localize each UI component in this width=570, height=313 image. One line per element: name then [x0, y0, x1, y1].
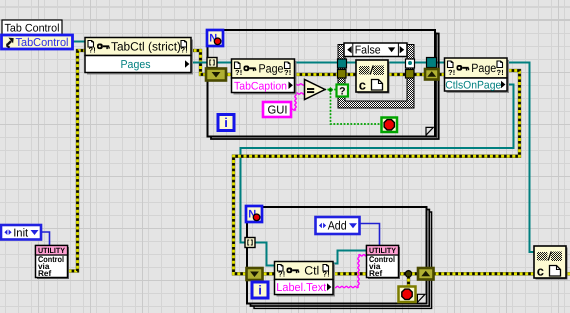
loop 1 left shift register [206, 69, 226, 81]
svg-text:Tab Control: Tab Control [5, 23, 60, 35]
property node TabCtl strict [85, 38, 193, 75]
wire error bottom loop out [433, 272, 535, 275]
loop 1 right shift register [425, 69, 439, 80]
wire error Ctl node to VI2 [332, 272, 368, 275]
wire error shift reg to Page node [225, 73, 232, 76]
svg-text:c: c [359, 78, 366, 93]
case selector terminal [337, 85, 349, 98]
svg-text:Pages: Pages [121, 59, 151, 71]
wire error shift to Ctl node [261, 272, 275, 275]
svg-text:Add: Add [328, 219, 347, 233]
case tunnel error out [406, 70, 415, 79]
string constant GUI [263, 102, 291, 117]
for loop 2 shadow frames [251, 210, 432, 309]
equal comparison node [305, 80, 326, 100]
svg-text:!: ! [501, 68, 504, 77]
wire string TabCaption to equal [294, 84, 305, 85]
wire ref out to c icon [506, 63, 535, 253]
wire ref Ctl node to VI2 [332, 251, 367, 264]
loop 2 iteration terminal i [252, 282, 268, 298]
wire Pages array to loop tunnel [190, 62, 208, 64]
wire error through case to icon [342, 73, 358, 76]
wire ctl ref tunnel to Ctl node [254, 243, 275, 266]
for loop 1 shadow frames [211, 33, 439, 139]
label Tab Control [2, 20, 62, 35]
subVI c-page icon bottom right [534, 246, 568, 280]
loop 2 count terminal N [246, 206, 262, 222]
svg-text:!: ! [327, 270, 330, 279]
conditional terminal loop 1 [382, 118, 398, 133]
wire error VI1 to TabCtl property node [66, 51, 85, 272]
case structure border [338, 45, 414, 109]
property node Page TabCaption [232, 59, 297, 95]
svg-text:!: ! [453, 68, 456, 77]
wire string Label.Text to VI2 [332, 255, 367, 288]
wire error VI2 to shift reg [398, 271, 419, 287]
wire ref case to loop tunnel [414, 62, 430, 64]
for loop 1 fold corner [426, 127, 435, 135]
wire enum Add to VI2 [359, 224, 380, 247]
subVI c-page icon in case [356, 60, 390, 94]
svg-text:False: False [355, 45, 381, 57]
loop 1 index tunnel [207, 58, 217, 68]
loop 1 count terminal N [207, 30, 223, 46]
svg-text:Label.Text: Label.Text [276, 282, 327, 294]
wire TabControl ref to TabCtl node [72, 41, 86, 43]
property node Page CtlsOnPage [445, 58, 510, 93]
svg-text:!: ! [185, 46, 188, 55]
svg-text:c: c [537, 264, 544, 279]
loop 2 left shift register [247, 268, 263, 280]
control reference TabControl [2, 35, 73, 49]
wire enum Init to VI1 [40, 232, 50, 246]
wire error loop to Page node 2 [439, 73, 445, 76]
wire error TabCtl to loop shift register [191, 51, 207, 75]
svg-text:CtlsOnPage: CtlsOnPage [445, 80, 501, 92]
wire error icon to out tunnel [386, 73, 412, 76]
for loop 1 frame [208, 30, 436, 137]
wire ref icon to out tunnel [386, 62, 412, 64]
case tunnel ref out [406, 59, 415, 68]
for loop 2 frame [247, 207, 427, 304]
enum constant Add [316, 217, 360, 234]
svg-text:TabCtl (strict): TabCtl (strict) [111, 40, 181, 54]
svg-text:TabControl: TabControl [16, 37, 69, 49]
case tunnel ref in [338, 59, 347, 68]
wire boolean equal to selector and stop [324, 87, 382, 124]
svg-text:Page: Page [259, 62, 284, 76]
case tunnel error in [338, 70, 347, 79]
loop 1 right tunnel ref [427, 58, 437, 68]
svg-text:Init: Init [13, 227, 29, 239]
wire ref Page node to case tunnel [294, 62, 340, 64]
svg-text:!: ! [289, 68, 292, 77]
svg-text:!: ! [93, 46, 96, 55]
wire ref through case to icon [342, 62, 358, 64]
conditional terminal loop 2 [399, 287, 416, 303]
svg-text:Page: Page [471, 61, 496, 75]
svg-text:TabCaption: TabCaption [234, 80, 287, 92]
property node Ctl Label.Text [275, 262, 336, 297]
wire CtlsOnPage array to bottom loop [241, 85, 514, 243]
loop 2 index tunnel [245, 238, 255, 248]
svg-text:Ctl: Ctl [304, 264, 319, 278]
wire error after c icon [565, 272, 570, 275]
wire error Page node to case tunnel [294, 73, 340, 76]
subVI Control via Ref 1 [36, 246, 70, 280]
svg-text:Ref: Ref [369, 269, 382, 278]
wire page ref tunnel to Page node [216, 62, 232, 64]
svg-text:!: ! [283, 270, 286, 279]
for loop 2 fold corner [417, 294, 426, 303]
svg-text:Ref: Ref [38, 269, 51, 278]
wire ref loop to Page node 2 [436, 62, 445, 64]
svg-text:i: i [224, 115, 228, 130]
svg-text:UTILITY: UTILITY [369, 246, 396, 255]
loop 2 right shift register [418, 268, 434, 280]
loop 1 iteration terminal i [218, 115, 234, 131]
enum constant Init [1, 225, 41, 240]
svg-text:i: i [258, 283, 262, 298]
svg-text:?: ? [339, 86, 345, 98]
svg-text:GUI: GUI [268, 105, 288, 117]
svg-text:UTILITY: UTILITY [38, 246, 65, 255]
case selector label [344, 43, 407, 57]
svg-text:!: ! [240, 68, 243, 77]
wire error to bottom loop [234, 71, 520, 274]
wire error case to loop shift reg [414, 73, 428, 76]
subVI Control via Ref 2 [367, 246, 401, 280]
wire string GUI to equal [290, 93, 305, 110]
